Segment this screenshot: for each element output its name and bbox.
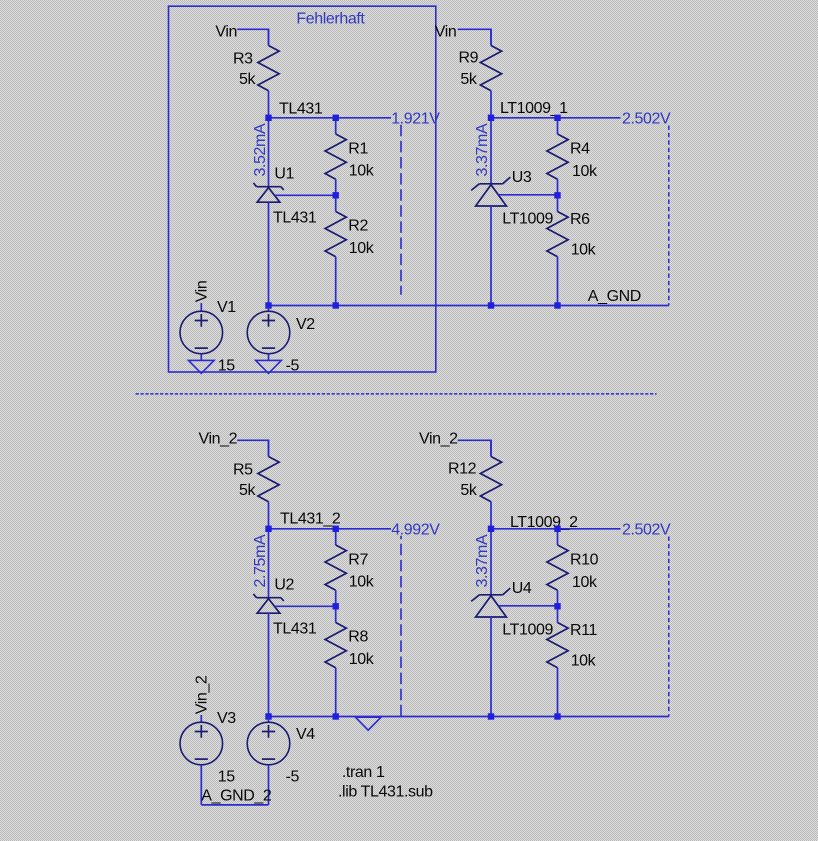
shunt reference U2 anode wire (268, 613, 270, 716)
svg-text:Vin: Vin (435, 23, 457, 40)
svg-text:U4: U4 (512, 580, 532, 597)
wire U4 to R10/R11 node (498, 605, 557, 607)
resistor R5 lead top (268, 440, 270, 456)
svg-text:.tran 1: .tran 1 (342, 764, 385, 781)
svg-text:10k: 10k (349, 574, 375, 591)
resistor R3 body (258, 46, 279, 91)
voltage source V3 plus sign (195, 725, 208, 738)
wire V2 bottom lead (268, 354, 270, 360)
wire node LT1009_1 to R4 top (491, 117, 558, 119)
svg-text:10k: 10k (571, 242, 597, 259)
wire node TL431_2 to R7 top (269, 528, 336, 530)
junction R4 top (554, 115, 560, 121)
resistor R4 lead bottom (557, 179, 559, 195)
resistor R2 body (325, 212, 346, 257)
svg-text:15: 15 (218, 357, 235, 374)
svg-text:U1: U1 (274, 166, 294, 183)
svg-text:TL431_2: TL431_2 (280, 511, 341, 528)
svg-text:3.52mA: 3.52mA (252, 123, 269, 176)
svg-text:10k: 10k (349, 651, 375, 668)
svg-text:LT1009: LT1009 (502, 622, 553, 639)
svg-text:R11: R11 (570, 622, 597, 639)
svg-text:U2: U2 (274, 577, 294, 594)
resistor R4 lead top (557, 118, 559, 134)
junction R8 bottom (333, 713, 339, 719)
svg-text:5k: 5k (239, 71, 256, 88)
voltage source V2 minus sign (262, 347, 275, 349)
junction R10 top (554, 526, 560, 532)
reference U4 triangle (476, 596, 507, 617)
resistor R8 lead top (335, 606, 337, 622)
wire U2 anode-ref to R7/R8 node (275, 605, 336, 607)
resistor R6 lead top (557, 195, 559, 211)
net wire A_GND_2 (201, 804, 268, 806)
wire V4 bottom lead (268, 765, 270, 805)
resistor R7 body (325, 545, 346, 590)
shunt reference U2 triangle (257, 599, 280, 614)
resistor R3 lead top (268, 29, 270, 45)
reference U4 bar right tick (503, 588, 511, 595)
wire to voltage marker 1.921V (336, 117, 391, 119)
ground flag on bottom rail (355, 717, 381, 730)
voltage source V4 circle (247, 722, 290, 765)
resistor R9 lead top (490, 29, 492, 45)
junction R11 bottom (554, 713, 560, 719)
svg-text:R9: R9 (459, 50, 479, 67)
resistor R12 body (480, 457, 501, 502)
svg-text:2.502V: 2.502V (622, 522, 671, 539)
dashed marker line at node TL431 (400, 125, 402, 295)
wire Vin to R3 top (237, 29, 268, 45)
shunt reference U1 bar left tick (253, 183, 256, 187)
wire U3 to R4/R6 node (498, 194, 557, 196)
ground under V1 (189, 360, 215, 373)
svg-text:A_GND: A_GND (588, 288, 641, 305)
svg-text:R10: R10 (570, 551, 599, 568)
reference U4 bar left tick (471, 595, 479, 602)
junction R7/R8 mid node (333, 603, 339, 609)
ground rail wire A_GND (269, 305, 669, 307)
junction node TL431 (265, 115, 271, 121)
junction R2 bottom (333, 302, 339, 308)
wire Vin_2 to R12 top (458, 440, 491, 456)
junction node LT1009_2 (488, 526, 494, 532)
resistor R9 body (480, 46, 501, 91)
junction V4 top (265, 713, 271, 719)
wire V1 bottom lead (200, 354, 202, 360)
svg-text:V1: V1 (217, 299, 236, 316)
wire U1 anode-ref to R1/R2 node (275, 194, 336, 196)
junction R1/R2 mid node (333, 192, 339, 198)
svg-text:15: 15 (218, 768, 235, 785)
resistor R5 lead bottom (268, 502, 270, 529)
shunt reference U2 bar left tick (253, 594, 256, 598)
svg-text:5k: 5k (460, 482, 477, 499)
junction U4 anode on rail (488, 713, 494, 719)
resistor R11 lead top (557, 606, 559, 622)
resistor R8 lead bottom (335, 668, 337, 717)
reference U3 bar left tick (471, 184, 479, 191)
svg-text:TL431: TL431 (273, 210, 317, 227)
reference U4 cathode bar (479, 594, 502, 596)
svg-text:1.921V: 1.921V (391, 111, 440, 128)
svg-text:R12: R12 (448, 461, 477, 478)
resistor R2 lead top (335, 195, 337, 211)
svg-text:R5: R5 (233, 461, 253, 478)
shunt reference U1 cathode wire (268, 121, 270, 187)
svg-text:Vin: Vin (215, 23, 237, 40)
svg-text:Vin_2: Vin_2 (199, 430, 238, 447)
ground under V2 (256, 360, 282, 373)
svg-text:10k: 10k (349, 240, 375, 257)
voltage source V2 circle (247, 311, 290, 354)
resistor R12 lead bottom (490, 502, 492, 529)
wire to voltage marker 2.502V (top) (558, 117, 621, 119)
svg-text:Vin_2: Vin_2 (194, 675, 211, 714)
svg-text:-5: -5 (286, 357, 300, 374)
svg-text:R7: R7 (348, 551, 368, 568)
resistor R6 lead bottom (557, 257, 559, 306)
svg-text:10k: 10k (572, 163, 598, 180)
svg-text:R3: R3 (233, 50, 253, 67)
voltage source V4 minus sign (262, 758, 275, 760)
svg-text:2.75mA: 2.75mA (252, 534, 269, 587)
wire to voltage marker 2.502V (bottom) (558, 528, 621, 530)
reference U3 cathode wire (490, 118, 492, 184)
svg-text:5k: 5k (460, 71, 477, 88)
svg-text:2.502V: 2.502V (622, 111, 671, 128)
svg-text:Vin_2: Vin_2 (419, 430, 458, 447)
voltage source V4 plus sign (262, 725, 275, 738)
wire node TL431 to R1 top (269, 117, 336, 119)
resistor R11 lead bottom (557, 668, 559, 717)
wire V1 top lead (200, 303, 202, 311)
shunt reference U1 anode wire (268, 202, 270, 305)
resistor R9 lead bottom (490, 91, 492, 118)
resistor R3 lead bottom (268, 91, 270, 118)
resistor R4 body (547, 134, 568, 179)
junction R4/R6 mid node (554, 192, 560, 198)
resistor R8 body (325, 623, 346, 668)
dotted separator line (136, 393, 657, 395)
reference U3 bar right tick (503, 177, 511, 184)
resistor R10 body (547, 545, 568, 590)
shunt reference U1 bar right tick (281, 187, 284, 190)
voltage source V3 minus sign (195, 758, 208, 760)
svg-text:R6: R6 (570, 211, 590, 228)
svg-text:R2: R2 (348, 218, 368, 235)
wire V2 top lead (268, 306, 270, 312)
resistor R2 lead bottom (335, 257, 337, 306)
junction R1 top (333, 115, 339, 121)
resistor R11 body (547, 623, 568, 668)
svg-text:4.992V: 4.992V (391, 522, 440, 539)
wire Vin to R9 top (458, 29, 491, 45)
svg-text:Vin: Vin (194, 281, 211, 303)
resistor R7 lead bottom (335, 590, 337, 606)
voltage source V1 circle (180, 311, 223, 354)
dashed marker line at node TL431_2 (400, 536, 402, 717)
wire V3 bottom lead (200, 765, 202, 805)
svg-text:10k: 10k (349, 163, 375, 180)
svg-text:R8: R8 (348, 629, 368, 646)
svg-text:3.37mA: 3.37mA (474, 123, 491, 176)
resistor R1 body (325, 134, 346, 179)
junction V2 top (265, 302, 271, 308)
dotted marker line at node LT1009_1 (668, 126, 670, 306)
svg-text:A_GND_2: A_GND_2 (201, 787, 272, 804)
resistor R10 lead bottom (557, 590, 559, 606)
svg-text:R1: R1 (348, 140, 368, 157)
voltage source V2 plus sign (262, 314, 275, 327)
resistor R12 lead top (490, 440, 492, 456)
reference U4 anode wire (490, 617, 492, 717)
svg-text:TL431: TL431 (279, 101, 323, 118)
svg-text:R4: R4 (570, 140, 590, 157)
shunt reference U1 cathode bar (257, 186, 281, 188)
shunt reference U2 cathode bar (257, 597, 281, 599)
svg-text:TL431: TL431 (273, 621, 317, 638)
svg-text:V2: V2 (296, 316, 315, 333)
resistor R1 lead top (335, 118, 337, 134)
svg-text:-5: -5 (286, 768, 300, 785)
resistor R5 body (258, 457, 279, 502)
wire to voltage marker 4.992V (336, 528, 391, 530)
svg-text:10k: 10k (571, 653, 597, 670)
svg-text:5k: 5k (239, 482, 256, 499)
wire node LT1009_2 to R10 top (491, 528, 558, 530)
junction U3 anode on rail (488, 302, 494, 308)
junction R6 bottom (554, 302, 560, 308)
wire V3 top lead (200, 715, 202, 722)
svg-text:Fehlerhaft: Fehlerhaft (296, 11, 365, 28)
resistor R7 lead top (335, 529, 337, 545)
svg-text:.lib TL431.sub: .lib TL431.sub (338, 783, 433, 800)
reference U3 cathode bar (479, 183, 502, 185)
wire Vin_2 to R5 top (237, 440, 268, 456)
resistor R1 lead bottom (335, 179, 337, 195)
reference U3 triangle (476, 185, 507, 206)
svg-text:U3: U3 (512, 169, 532, 186)
dotted marker line at node LT1009_2 (668, 537, 670, 717)
junction node TL431_2 (265, 526, 271, 532)
resistor R10 lead top (557, 529, 559, 545)
shunt reference U1 triangle (257, 188, 280, 203)
svg-text:V3: V3 (217, 710, 236, 727)
svg-text:10k: 10k (572, 574, 598, 591)
resistor R6 body (547, 212, 568, 257)
junction R10/R11 mid node (554, 603, 560, 609)
svg-text:V4: V4 (296, 726, 315, 743)
reference U3 anode wire (490, 206, 492, 306)
voltage source V1 plus sign (195, 314, 208, 327)
shunt reference U2 bar right tick (281, 598, 284, 601)
wire V4 top lead (268, 717, 270, 723)
junction node LT1009_1 (488, 115, 494, 121)
reference U4 cathode wire (490, 529, 492, 595)
shunt reference U2 cathode wire (268, 532, 270, 598)
junction R7 top (333, 526, 339, 532)
comment box Fehlerhaft (169, 6, 436, 372)
voltage source V1 minus sign (195, 347, 208, 349)
svg-text:3.37mA: 3.37mA (474, 534, 491, 587)
ground rail wire (bottom section) (269, 716, 669, 718)
svg-text:LT1009: LT1009 (502, 211, 553, 228)
voltage source V3 circle (180, 722, 223, 765)
